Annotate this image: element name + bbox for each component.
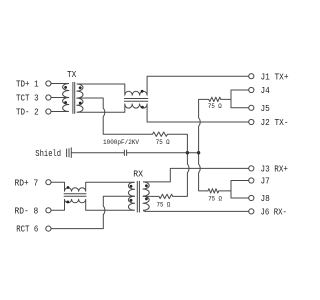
svg-text:TD+ 1: TD+ 1 [16,79,39,90]
svg-text:RD- 8: RD- 8 [15,205,39,216]
svg-text:RX: RX [133,168,143,179]
svg-text:75 Ω: 75 Ω [208,196,222,204]
svg-text:J3 RX+: J3 RX+ [261,164,289,175]
svg-text:TD- 2: TD- 2 [16,107,39,118]
svg-text:J5: J5 [261,103,270,114]
svg-text:Shield: Shield [35,148,61,159]
svg-text:RD+ 7: RD+ 7 [15,177,39,188]
svg-text:J2 TX-: J2 TX- [261,117,289,128]
svg-text:TCT 3: TCT 3 [16,93,39,104]
svg-text:J4: J4 [261,85,271,96]
svg-text:J1 TX+: J1 TX+ [261,71,289,82]
svg-text:J6 RX-: J6 RX- [261,207,287,218]
svg-text:J8: J8 [261,193,270,204]
svg-text:RCT 6: RCT 6 [16,224,38,235]
svg-text:1000pF/2KV: 1000pF/2KV [103,139,140,147]
svg-text:75 Ω: 75 Ω [208,103,222,111]
svg-text:75 Ω: 75 Ω [157,202,171,210]
svg-text:TX: TX [67,69,77,80]
svg-text:J7: J7 [261,176,270,187]
svg-text:75 Ω: 75 Ω [156,139,170,147]
